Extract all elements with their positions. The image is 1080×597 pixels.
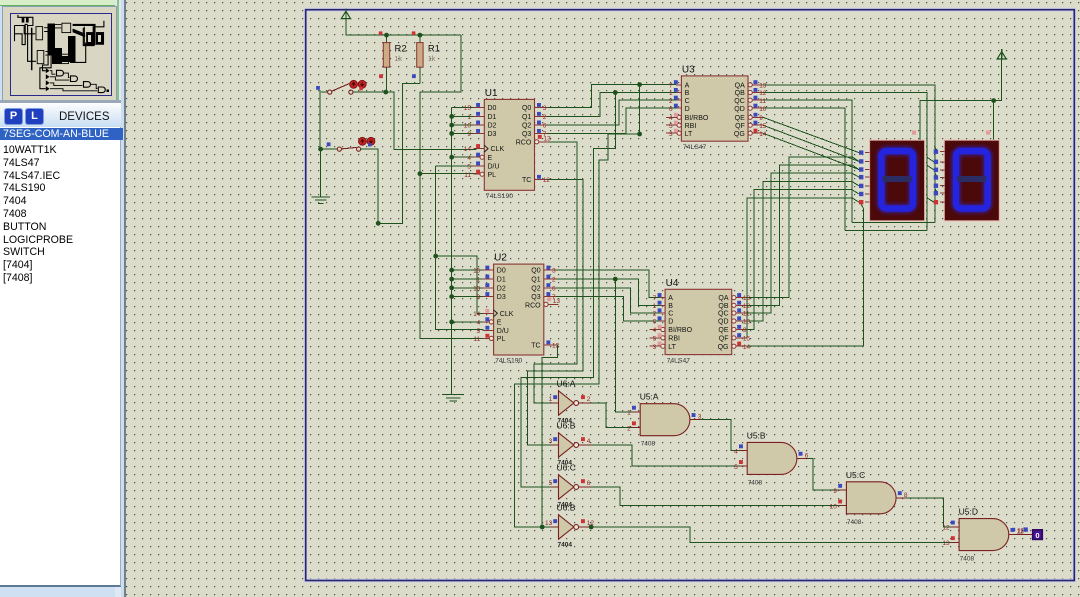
- svg-text:6: 6: [805, 452, 809, 459]
- svg-text:C: C: [685, 98, 690, 105]
- svg-text:15: 15: [473, 268, 481, 275]
- button P: [4, 108, 23, 125]
- svg-text:QA: QA: [735, 82, 745, 89]
- pin QC (11) of U3: [748, 98, 752, 102]
- wire U1.D/U left segment: [436, 165, 478, 167]
- junction bus node U2 D0: [449, 268, 454, 273]
- overview minimap window: [2, 6, 117, 101]
- button L: [25, 108, 44, 125]
- svg-text:3: 3: [698, 414, 702, 421]
- svg-text:LT: LT: [668, 344, 676, 351]
- wire display2 pin jog: [927, 198, 934, 203]
- pin C (2) of U3: [676, 99, 681, 101]
- svg-text:9: 9: [759, 115, 763, 122]
- svg-text:QF: QF: [735, 123, 745, 130]
- junction D/U chain node: [433, 254, 438, 259]
- svg-text:13: 13: [743, 295, 751, 302]
- svg-text:R2: R2: [395, 44, 407, 55]
- pin BI/RBO (4) of U4: [650, 329, 661, 331]
- wire U6:D out -> U5:D.13: [591, 527, 951, 542]
- device list item 7404: [3, 195, 118, 207]
- wire U1.TC down to U6:B input: [528, 179, 584, 445]
- svg-text:11: 11: [743, 311, 750, 318]
- device list item 74LS47.IEC: [3, 170, 118, 182]
- junction bus node U1 D3: [449, 131, 454, 136]
- svg-text:QC: QC: [718, 311, 729, 318]
- 7-seg display DS2 body: [944, 140, 999, 221]
- svg-text:U2: U2: [494, 253, 507, 264]
- svg-text:D: D: [668, 319, 673, 326]
- svg-text:D3: D3: [488, 131, 497, 138]
- state square display1 anode: [912, 131, 916, 135]
- svg-text:D0: D0: [488, 105, 497, 112]
- pin D2 (10) of U2: [483, 287, 494, 289]
- svg-text:11: 11: [464, 172, 471, 179]
- svg-text:9: 9: [833, 488, 837, 495]
- junction bus node U2 D3: [449, 294, 454, 299]
- wire U3.QD down left of display1: [763, 108, 845, 230]
- svg-text:U6:C: U6:C: [557, 463, 576, 473]
- pin PL (11) of U2: [483, 337, 490, 339]
- pin A (7) of U4: [660, 297, 665, 299]
- pin RCO (13) of U2: [544, 302, 548, 306]
- device list item SWITCH: [3, 246, 118, 258]
- svg-text:13: 13: [545, 520, 553, 527]
- AND gate U5:C (7408): [846, 482, 896, 514]
- DS2 dark middle segment g: [957, 176, 986, 182]
- logic probe output (reads 0): [1009, 534, 1034, 536]
- wire U3.QF diagonal to display1 b: [763, 125, 859, 161]
- svg-text:1k: 1k: [395, 56, 403, 63]
- junction bus node U2 D1: [449, 277, 454, 282]
- svg-text:10: 10: [464, 123, 472, 130]
- wire PL chain down to U2 PL: [420, 174, 484, 339]
- wire U2.Q3 -> U4.D: [556, 297, 660, 321]
- svg-text:12: 12: [552, 343, 560, 350]
- junction PL node: [418, 171, 423, 176]
- AND gate U5:D (7408): [959, 519, 1009, 551]
- svg-text:2: 2: [669, 98, 673, 105]
- wire loop under display1 (1): [852, 222, 935, 224]
- svg-text:7: 7: [669, 82, 673, 89]
- svg-text:1k: 1k: [428, 56, 436, 63]
- IC U4 74LS47 body: [665, 289, 732, 354]
- svg-text:1: 1: [467, 114, 471, 121]
- svg-text:13: 13: [759, 82, 767, 89]
- junction U3.B branch: [613, 90, 618, 95]
- DS1 lit segments (digit 0): [881, 151, 913, 209]
- wire bus to U1 D1: [452, 115, 474, 117]
- svg-text:CLK: CLK: [500, 311, 514, 318]
- pin RBI (5) of U4: [650, 337, 661, 339]
- pin QA (13) of U4: [732, 296, 736, 300]
- svg-text:U1: U1: [485, 88, 498, 99]
- svg-text:U3: U3: [682, 64, 695, 75]
- wire loop under display1 (2): [845, 230, 927, 232]
- pin D3 (9) of U1: [473, 133, 484, 135]
- svg-text:5: 5: [477, 328, 481, 335]
- wire U1.Q2 -> U3.C: [547, 100, 677, 125]
- svg-text:QG: QG: [734, 131, 745, 138]
- device list item LOGICPROBE: [3, 234, 118, 246]
- DS2 lit segments (digit 0): [956, 151, 988, 209]
- pin TC (12) of U2: [544, 344, 556, 346]
- DS1 dark middle segment g: [883, 176, 912, 182]
- svg-text:15: 15: [759, 123, 767, 130]
- svg-text:9: 9: [743, 327, 747, 334]
- junction A-branch corner: [637, 132, 642, 137]
- pin QB (12) of U4: [732, 303, 736, 307]
- svg-text:QB: QB: [718, 303, 728, 310]
- wire bus to U1 D0: [452, 107, 474, 109]
- wire U1.Q3 -> U3.D: [547, 108, 677, 133]
- wire U4.QE staircase to display1 pin: [745, 190, 859, 330]
- wire display2 pin jog: [927, 165, 934, 170]
- svg-text:74LS47: 74LS47: [683, 144, 707, 151]
- junction U5:A.1 branch: [613, 277, 618, 282]
- pin QF (15) of U3: [748, 123, 752, 127]
- svg-text:RCO: RCO: [525, 302, 541, 309]
- svg-text:TC: TC: [531, 343, 540, 350]
- svg-text:1: 1: [653, 303, 657, 310]
- svg-text:7408: 7408: [748, 479, 763, 486]
- wire D/U chain down to U2.D/U: [436, 166, 484, 330]
- resistor R2: [386, 35, 388, 43]
- pin D1 (1) of U1: [473, 115, 484, 117]
- svg-text:Q0: Q0: [522, 105, 531, 112]
- svg-text:C: C: [668, 311, 673, 318]
- wire U5:B out -> U5:C.9: [807, 458, 839, 490]
- wire bus to U2 D1: [452, 278, 484, 280]
- inverter U6:A (7404): [559, 391, 574, 415]
- svg-text:D/U: D/U: [488, 164, 500, 171]
- AND gate U5:B (7408): [747, 442, 797, 474]
- svg-text:TC: TC: [522, 177, 531, 184]
- pin Q1 (2) of U2: [544, 278, 556, 280]
- pin QF (15) of U4: [732, 336, 736, 340]
- wire bus to U1 E: [452, 156, 474, 158]
- svg-text:RCO: RCO: [516, 140, 532, 147]
- svg-text:QA: QA: [718, 295, 728, 302]
- pin D (6) of U4: [660, 320, 665, 322]
- svg-text:U6:B: U6:B: [557, 503, 576, 513]
- svg-text:4: 4: [653, 327, 657, 334]
- power symbol #2 (VCC displays): [997, 52, 1006, 59]
- svg-text:14: 14: [464, 146, 472, 153]
- svg-text:Q1: Q1: [522, 114, 531, 121]
- pin D2 (10) of U1: [473, 124, 484, 126]
- wire U3.QA right and down display gap: [763, 85, 935, 223]
- svg-text:QE: QE: [718, 327, 728, 334]
- svg-text:3: 3: [669, 131, 673, 138]
- pin RBI (5) of U3: [666, 124, 677, 126]
- junction node B (SW2/R1): [376, 221, 381, 226]
- junction bus node U2 D2: [449, 285, 454, 290]
- wire U2.Q0 -> U4.A: [556, 270, 660, 298]
- switch SW1: [316, 86, 320, 90]
- wire U2.Q1 -> U4.B: [556, 279, 660, 305]
- wire U4.QF staircase to display1 pin: [745, 198, 859, 338]
- svg-text:Q2: Q2: [522, 123, 531, 130]
- svg-text:R1: R1: [428, 44, 440, 55]
- state square below R2: [379, 74, 383, 78]
- wire U1.Q0 -> U3.A: [547, 85, 677, 108]
- svg-text:PL: PL: [488, 172, 497, 179]
- svg-text:QF: QF: [719, 335, 729, 342]
- svg-text:10: 10: [759, 106, 767, 113]
- svg-text:B: B: [685, 90, 690, 97]
- junction U6:D output node: [589, 525, 594, 530]
- wire U4.QB staircase to display1 pin: [745, 165, 859, 305]
- svg-text:5: 5: [734, 464, 738, 471]
- svg-text:D1: D1: [488, 114, 497, 121]
- svg-text:D2: D2: [497, 285, 506, 292]
- svg-text:74LS190: 74LS190: [495, 358, 522, 365]
- svg-text:7408: 7408: [641, 441, 656, 448]
- svg-text:D1: D1: [497, 277, 506, 284]
- svg-text:PL: PL: [497, 336, 506, 343]
- pin Q3 (7) of U1: [535, 133, 547, 135]
- svg-text:11: 11: [1017, 528, 1024, 535]
- pin PL (11) of U1: [473, 173, 480, 175]
- 7-seg display DS1 body: [870, 140, 925, 221]
- svg-text:6: 6: [543, 123, 547, 130]
- svg-text:2: 2: [653, 311, 657, 318]
- pin D0 (15) of U2: [483, 269, 494, 271]
- junction SW2 left node: [318, 147, 323, 152]
- svg-text:11: 11: [474, 336, 481, 343]
- svg-text:9: 9: [477, 294, 481, 301]
- wire U3.QG diagonal to display1 c: [763, 133, 859, 169]
- device list item 74LS47: [3, 157, 118, 169]
- junction U3.A branch: [637, 82, 642, 87]
- wire display power rail: [920, 59, 1002, 140]
- inverter U6:B (7404): [559, 433, 574, 457]
- pin D0 (15) of U1: [473, 107, 484, 109]
- device list item BUTTON: [3, 221, 118, 233]
- wire bus to U1 D2: [452, 124, 474, 126]
- AND gate U5:A (7408): [640, 404, 690, 436]
- svg-text:4: 4: [587, 438, 591, 445]
- minimap sheet border: [11, 14, 112, 96]
- pin DU (5) of U1: [473, 165, 484, 167]
- svg-text:A: A: [668, 295, 673, 302]
- device list item [7404]: [3, 259, 118, 271]
- device list item 74LS190: [3, 182, 118, 194]
- wire U2.TC down to U6:D input: [542, 345, 557, 527]
- svg-text:QE: QE: [735, 115, 745, 122]
- svg-text:12: 12: [743, 303, 751, 310]
- svg-text:2: 2: [587, 396, 591, 403]
- pin DU (5) of U2: [483, 329, 494, 331]
- pin QE (9) of U4: [732, 327, 736, 331]
- svg-text:E: E: [497, 320, 502, 327]
- wire U4.QC staircase to display1 pin: [745, 173, 859, 313]
- svg-text:10: 10: [743, 319, 751, 326]
- svg-text:4: 4: [467, 155, 471, 162]
- junction bus node U2 E: [449, 320, 454, 325]
- pin Q0 (3) of U2: [544, 269, 556, 271]
- svg-text:QC: QC: [734, 98, 745, 105]
- wire SW common down to GND1: [320, 149, 322, 197]
- device list item 7408: [3, 208, 118, 220]
- svg-text:CLK: CLK: [491, 146, 505, 153]
- svg-text:D0: D0: [497, 268, 506, 275]
- svg-text:5: 5: [467, 164, 471, 171]
- pin CLK (14) of U1: [473, 148, 484, 150]
- svg-text:7404: 7404: [558, 542, 573, 549]
- pin Q2 (6) of U1: [535, 124, 547, 126]
- wire display2 pin jog: [935, 147, 938, 152]
- wire power rail top: arrow down then right to x460.8: [346, 19, 461, 35]
- wire SW2 out down to node B: [361, 149, 379, 223]
- pin QD (10) of U3: [748, 106, 752, 110]
- power symbol #1 (VCC top-left): [341, 11, 350, 18]
- wire U4.QG to display1 g pin: [745, 203, 863, 346]
- svg-text:Q3: Q3: [531, 294, 540, 301]
- wire A-branch hook down to U6:D input: [514, 85, 639, 527]
- wire U1.RCO down to U6:A input: [534, 142, 577, 403]
- wire U3.QE diagonal to display1 a: [763, 117, 859, 152]
- pin E (4) of U1: [473, 156, 480, 158]
- wire U4.QA staircase to display1 pin: [745, 157, 859, 298]
- pin D1 (1) of U2: [483, 278, 494, 280]
- sidebar panel: [0, 0, 121, 597]
- pin QE (9) of U3: [748, 115, 752, 119]
- svg-text:10: 10: [473, 285, 481, 292]
- svg-text:3: 3: [552, 268, 556, 275]
- svg-text:11: 11: [759, 98, 766, 105]
- svg-text:9: 9: [467, 131, 471, 138]
- IC U3 74LS47 body: [681, 76, 748, 141]
- svg-text:74LS47: 74LS47: [667, 358, 691, 365]
- svg-text:U5:C: U5:C: [846, 470, 865, 480]
- sheet border halo: [306, 10, 1075, 581]
- toolbar P/L DEVICES: [0, 100, 121, 103]
- IC U2 74LS190 body: [494, 264, 544, 355]
- DS1 segment pins: [859, 150, 863, 154]
- svg-text:6: 6: [587, 480, 591, 487]
- wire chain to U2.CLK: [436, 256, 486, 313]
- svg-text:14: 14: [473, 311, 481, 318]
- svg-text:2: 2: [552, 277, 556, 284]
- pin D (6) of U3: [676, 107, 681, 109]
- svg-text:5: 5: [653, 335, 657, 342]
- svg-text:LT: LT: [685, 131, 693, 138]
- pin QA (13) of U3: [748, 83, 752, 87]
- wire U5:C out -> U5:D.12: [896, 498, 951, 527]
- pin QD (10) of U4: [732, 319, 736, 323]
- device list item 10WATT1K: [3, 144, 118, 156]
- junction node A (SW1/R2): [383, 90, 388, 95]
- svg-text:1: 1: [669, 90, 673, 97]
- svg-text:4: 4: [477, 320, 481, 327]
- selected device 7SEG-COM-AN-BLUE: [0, 128, 123, 140]
- svg-text:3: 3: [653, 344, 657, 351]
- wire bus to U2 D2: [452, 287, 484, 289]
- sheet border frame: [306, 10, 1075, 581]
- svg-text:U5:D: U5:D: [959, 507, 978, 517]
- svg-text:D/U: D/U: [497, 328, 509, 335]
- wire SW1 out to node A: [353, 91, 386, 93]
- wire B-branch hook down to U6:C input: [521, 93, 615, 488]
- svg-text:1: 1: [549, 396, 553, 403]
- svg-text:D2: D2: [488, 123, 497, 130]
- svg-text:5: 5: [669, 123, 673, 130]
- minimap wire bundles: [18, 15, 36, 61]
- wire bus to U2 D0: [452, 269, 484, 271]
- wire bus to U1 D3: [452, 133, 474, 135]
- pin E (4) of U2: [483, 321, 490, 323]
- svg-text:6: 6: [669, 106, 673, 113]
- wire U6:A out -> U5:A.2: [591, 403, 632, 428]
- junction bus node U1 D1: [449, 114, 454, 119]
- pin BI/RBO (4) of U3: [666, 116, 677, 118]
- wire U5:A out -> U5:B.4: [700, 420, 739, 451]
- top green strip: [0, 0, 121, 6]
- svg-text:7: 7: [653, 295, 657, 302]
- svg-text:13: 13: [544, 135, 552, 142]
- svg-text:3: 3: [543, 105, 547, 112]
- svg-text:12: 12: [942, 525, 950, 532]
- wire power drop to U1 PL chain: [420, 35, 461, 174]
- wire U2.Q2 -> U4.C: [556, 288, 660, 313]
- state square display2 anode: [986, 131, 990, 135]
- svg-text:D3: D3: [497, 294, 506, 301]
- svg-text:13: 13: [942, 540, 950, 547]
- svg-text:QB: QB: [735, 90, 745, 97]
- wire R1 bottom to node B: [378, 84, 420, 224]
- wire Q1 branch down to U5:A.1: [615, 279, 633, 412]
- pin A (7) of U3: [676, 84, 681, 86]
- wire U3.QC down left of display1: [763, 100, 852, 223]
- wire ground bus vertical: [451, 108, 453, 395]
- pin C (2) of U4: [660, 312, 665, 314]
- wire bus to U2 D3: [452, 296, 484, 298]
- pin CLK (14) of U2: [483, 312, 494, 314]
- wire display2 anode drop: [993, 101, 995, 140]
- svg-text:10: 10: [830, 503, 838, 510]
- wire display2 pin jog: [935, 173, 938, 178]
- wire node A to U1 CLK: [386, 92, 477, 149]
- pin QG (14) of U3: [748, 131, 752, 135]
- pin B (1) of U4: [660, 304, 665, 306]
- svg-text:1: 1: [627, 410, 631, 417]
- inverter U6:C (7404): [559, 475, 574, 499]
- wire U1.Q1 -> U3.B: [547, 93, 677, 117]
- svg-text:Q0: Q0: [531, 268, 540, 275]
- svg-text:BI/RBO: BI/RBO: [685, 115, 709, 122]
- svg-text:8: 8: [904, 492, 908, 499]
- wire display2 pin jog: [927, 157, 934, 162]
- svg-text:6: 6: [653, 319, 657, 326]
- switch SW2: [327, 142, 331, 146]
- pin RCO (13) of U1: [535, 140, 539, 144]
- resistor R1: [419, 35, 421, 43]
- wire U6:B out -> U5:B.5: [591, 445, 739, 466]
- svg-text:U5:A: U5:A: [640, 392, 659, 402]
- svg-text:12: 12: [543, 177, 551, 184]
- device list item [7408]: [3, 272, 118, 284]
- pin Q1 (2) of U1: [535, 115, 547, 117]
- junction rail/R2 top: [384, 33, 389, 38]
- pin B (1) of U3: [676, 92, 681, 94]
- wire branch to U1 PL pin: [420, 173, 481, 175]
- svg-text:7408: 7408: [847, 519, 862, 526]
- svg-text:2: 2: [627, 425, 631, 432]
- wire display2 pin jog: [935, 189, 938, 194]
- junction bus node U1 D2: [449, 123, 454, 128]
